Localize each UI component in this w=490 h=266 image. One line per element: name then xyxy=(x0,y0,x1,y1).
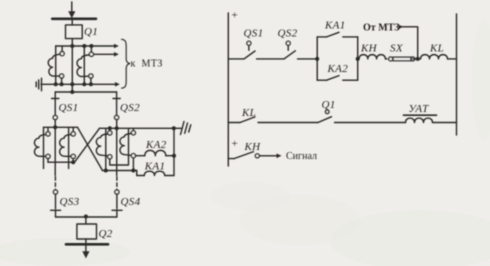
svg-text:Q1: Q1 xyxy=(322,99,336,111)
junction KA1 lead xyxy=(131,169,135,173)
wire QS1/QS2 header line xyxy=(55,91,116,93)
current transformer TA4 primary xyxy=(68,127,70,168)
current transformer TA2 secondary winding xyxy=(77,47,94,85)
ground right xyxy=(174,122,191,135)
svg-text:KA2: KA2 xyxy=(145,139,167,151)
disconnector QS2 xyxy=(113,92,120,120)
junction TA2 primary bottom xyxy=(82,82,86,86)
wire KA1 left lead xyxy=(132,158,134,171)
svg-text:QS4: QS4 xyxy=(121,196,141,208)
wire middle top-left line xyxy=(44,126,78,128)
wire Q2 to busbar xyxy=(85,239,87,252)
svg-text:От МТЗ: От МТЗ xyxy=(363,23,400,34)
svg-text:КН: КН xyxy=(360,43,378,55)
svg-text:КН: КН xyxy=(244,141,262,153)
junction TA2 primary top xyxy=(82,44,86,48)
junction TA4 secondary / bottom-left line xyxy=(71,160,75,164)
current transformer TA1 primary xyxy=(55,46,57,84)
wire main feeder vertical xyxy=(71,39,73,92)
current transformer TA6 secondary winding xyxy=(120,128,136,157)
relay coil KL xyxy=(421,55,448,59)
contact QS2 auxiliary xyxy=(284,41,295,59)
svg-text:+: + xyxy=(232,138,238,150)
svg-text:KL: KL xyxy=(429,43,444,55)
contact KA1 xyxy=(317,32,358,37)
contact Q1 auxiliary xyxy=(318,110,332,123)
svg-text:QS3: QS3 xyxy=(60,196,80,208)
wire от МТЗ drop xyxy=(399,25,418,59)
wire CT output line 2 (к МТЗ) xyxy=(94,52,119,57)
circuit breaker Q1 xyxy=(66,25,83,39)
current transformer TA3 primary xyxy=(43,127,45,168)
svg-text:Q1: Q1 xyxy=(84,26,98,38)
svg-text:KA1: KA1 xyxy=(324,20,346,32)
svg-text:QS1: QS1 xyxy=(244,28,264,40)
disconnector QS1 xyxy=(52,92,59,120)
junction feeder / output line 1 xyxy=(70,44,74,48)
svg-text:QS2: QS2 xyxy=(120,102,140,114)
wire down to Q2 xyxy=(85,217,87,224)
wire KA1 feed line xyxy=(103,170,137,172)
busbar bottom xyxy=(66,243,108,246)
wire QS1 branch down xyxy=(54,120,56,176)
wire SX to KL xyxy=(412,58,420,60)
svg-text:к МТЗ: к МТЗ xyxy=(131,59,163,70)
incoming supply arrow xyxy=(68,2,75,18)
wire to contact group xyxy=(298,58,318,60)
svg-text:KA1: KA1 xyxy=(144,160,166,172)
wire rung2 middle xyxy=(258,122,318,124)
parallel group left vertical xyxy=(316,37,318,80)
coil УАТ xyxy=(406,118,433,122)
junction ground / relay vertical xyxy=(172,126,176,130)
svg-text:УАТ: УАТ xyxy=(409,103,430,115)
wire KH to SX xyxy=(385,58,387,60)
relay coil KH xyxy=(359,55,385,59)
wire rung1 middle xyxy=(257,58,285,60)
junction KA2 / relay vertical xyxy=(172,154,176,158)
current transformer TA1 secondary winding xyxy=(48,47,64,85)
junction QS2 branch / top-right line xyxy=(115,126,119,130)
disconnector QS3 xyxy=(51,190,61,217)
junction feeder / QS header xyxy=(70,90,74,94)
link SX xyxy=(389,57,415,61)
wire QS2 branch down xyxy=(116,120,118,176)
current transformer TA5 primary xyxy=(105,128,107,170)
junction contact group left xyxy=(315,57,319,61)
svg-text:KA2: KA2 xyxy=(327,63,349,75)
outgoing feeder arrow xyxy=(82,251,89,258)
svg-text:QS2: QS2 xyxy=(278,28,298,40)
wire to KH xyxy=(358,58,359,60)
wire crossing diagonal up xyxy=(75,128,100,162)
junction QS1 branch / top-left line xyxy=(53,125,57,129)
svg-text:Q2: Q2 xyxy=(99,228,113,240)
junction TA1 secondary bottom xyxy=(60,82,64,86)
parallel group right vertical xyxy=(357,37,359,80)
bus positive left rail xyxy=(227,13,229,166)
wire QS2 dashed continuation xyxy=(116,177,118,190)
wire rung1 start xyxy=(228,58,244,60)
svg-text:Сигнал: Сигнал xyxy=(286,151,317,162)
wire signal arrow xyxy=(260,154,282,159)
disconnector QS4 xyxy=(112,190,122,217)
wire УАТ to right rail xyxy=(433,122,457,124)
bus right rail xyxy=(456,14,458,135)
wire middle bottom-left line xyxy=(48,161,75,163)
contact KL xyxy=(240,117,255,123)
wire rung2 to УАТ xyxy=(335,122,406,124)
node junction от МТЗ xyxy=(416,57,420,61)
wire QS1 dashed continuation xyxy=(54,177,56,190)
contact QS1 auxiliary xyxy=(244,41,255,59)
current transformer TA4 secondary winding xyxy=(60,127,76,162)
wire busbar to Q1 xyxy=(71,20,73,25)
wire middle top-right line xyxy=(100,127,174,129)
junction contact group right xyxy=(356,57,360,61)
junction TA5 secondary / top-right line xyxy=(108,126,112,130)
wire right vertical of relay group xyxy=(173,128,175,175)
contact KA2 xyxy=(317,76,358,81)
relay coil KA2 xyxy=(136,150,175,155)
brace к МТЗ xyxy=(122,39,130,88)
junction TA1 primary bottom xyxy=(54,82,58,86)
busbar top xyxy=(52,17,96,20)
junction TA5 primary / KA1 feed xyxy=(104,169,108,173)
wire secondary common line with arrow (к МТЗ) xyxy=(41,82,120,87)
ground left xyxy=(36,78,41,91)
contact KH signal xyxy=(228,152,259,159)
current transformer TA3 secondary winding xyxy=(34,127,50,162)
svg-text:SX: SX xyxy=(390,43,404,55)
relay coil KA1 xyxy=(137,171,174,175)
wire CT output line 1 (к МТЗ) xyxy=(56,44,119,49)
svg-text:KL: KL xyxy=(241,107,256,119)
wire crossing diagonal down xyxy=(78,127,103,170)
current transformer TA6 primary xyxy=(128,128,130,156)
wire joining line to Q2 xyxy=(56,216,117,218)
junction TA2 secondary top xyxy=(89,44,93,48)
current transformer TA2 primary xyxy=(83,46,85,84)
wire KA1 step down xyxy=(136,171,138,176)
wire KL to right rail xyxy=(448,58,457,60)
svg-text:QS1: QS1 xyxy=(59,102,79,114)
svg-text:+: + xyxy=(232,9,238,21)
circuit breaker Q2 xyxy=(77,224,97,239)
node junction Q2 feed xyxy=(84,215,88,219)
underline УАТ xyxy=(404,114,437,116)
junction feeder / common line xyxy=(70,82,74,86)
current transformer TA5 secondary winding xyxy=(96,128,128,165)
wire rung2 start xyxy=(228,122,240,124)
junction TA2 secondary bottom xyxy=(89,82,93,86)
